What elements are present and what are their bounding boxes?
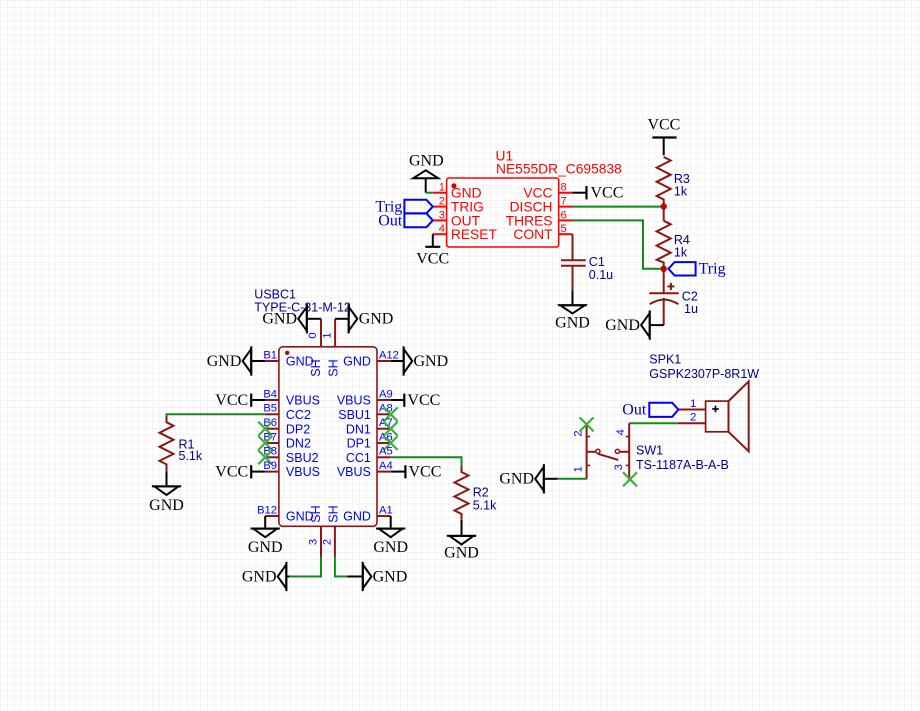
USBC1 pin B6 DP2 no-connect — [258, 417, 310, 436]
svg-text:GND: GND — [373, 539, 408, 556]
svg-text:5: 5 — [561, 223, 567, 235]
svg-text:B4: B4 — [263, 388, 277, 400]
SW1 pin 3 no-connect — [613, 464, 637, 486]
svg-text:3: 3 — [308, 539, 320, 545]
wire B5 CC2 to R1 — [167, 414, 266, 416]
svg-text:RESET: RESET — [451, 227, 498, 242]
switch SW1 body — [587, 423, 630, 479]
USBC1 pin A12 GND — [343, 349, 399, 368]
svg-text:DP1: DP1 — [347, 437, 371, 451]
resistor R3 — [657, 157, 690, 206]
svg-text:THRES: THRES — [506, 213, 553, 228]
ground symbol at A1 — [373, 516, 408, 556]
ground symbol at SW1 — [499, 464, 557, 493]
U1 pin 6 THRES — [506, 209, 573, 228]
svg-text:2: 2 — [321, 539, 333, 545]
U1 pin 3 OUT — [433, 209, 481, 228]
svg-text:SH: SH — [326, 505, 340, 522]
IC U1 NE555DR timer body — [447, 178, 559, 247]
svg-text:NE555DR_C695838: NE555DR_C695838 — [496, 162, 622, 177]
U1 pin 4 RESET — [433, 223, 498, 242]
ground symbol at B1 — [207, 346, 265, 375]
svg-text:B12: B12 — [257, 504, 277, 516]
SW1 pin 1 label — [572, 466, 584, 472]
svg-text:A9: A9 — [379, 388, 393, 400]
SPK1 pin 1 — [678, 398, 705, 410]
USBC1 pin A6 DP1 no-connect — [347, 431, 398, 450]
shield pin labels SH SH top — [309, 359, 341, 376]
svg-text:GND: GND — [343, 355, 371, 369]
svg-text:1: 1 — [572, 466, 584, 472]
net flag Trig at R4-C2 node — [668, 261, 725, 278]
svg-text:GND: GND — [248, 539, 283, 556]
svg-text:TRIG: TRIG — [451, 200, 484, 215]
SW1 pin 4 label — [615, 429, 627, 435]
wire SPK1 pin 2 to SW1 pin 4 — [629, 422, 678, 424]
USBC1 pin 3 shield bottom — [308, 526, 322, 556]
svg-text:1: 1 — [690, 398, 696, 410]
svg-text:SPK1: SPK1 — [649, 352, 681, 366]
net flag Out at U1 pin 3 — [378, 212, 433, 229]
svg-text:5.1k: 5.1k — [179, 449, 203, 463]
shield pin labels SH SH bottom — [309, 505, 341, 522]
svg-text:SH: SH — [309, 359, 323, 376]
U1 pin 8 VCC — [523, 182, 572, 201]
svg-text:3: 3 — [439, 209, 445, 221]
svg-text:B5: B5 — [263, 403, 277, 415]
net flag Trig at U1 pin 2 — [375, 199, 432, 216]
node R3-R4 junction — [661, 203, 667, 209]
svg-text:Out: Out — [622, 401, 647, 418]
VCC symbol at A4 — [391, 464, 442, 481]
svg-text:SW1: SW1 — [636, 444, 663, 458]
svg-text:A4: A4 — [379, 460, 393, 472]
svg-text:2: 2 — [439, 196, 445, 208]
svg-text:VCC: VCC — [409, 464, 442, 481]
svg-text:0: 0 — [307, 332, 319, 338]
svg-text:GND: GND — [409, 153, 444, 170]
resistor R2 — [455, 466, 498, 520]
svg-text:1u: 1u — [684, 302, 698, 316]
svg-text:0.1u: 0.1u — [589, 268, 613, 282]
capacitor C1 — [561, 255, 613, 290]
svg-text:CC2: CC2 — [286, 408, 311, 422]
svg-text:GND: GND — [343, 510, 371, 524]
wire SW1 pin 1 to ground — [557, 478, 586, 480]
U1 pin 2 TRIG — [433, 196, 484, 215]
wire U1 pin 7 to R3-R4 node — [573, 206, 664, 208]
ground symbol at pin 1 — [335, 304, 393, 333]
node R4-C2 junction — [661, 266, 667, 272]
resistor R1 — [160, 416, 203, 471]
svg-text:OUT: OUT — [451, 213, 481, 228]
svg-text:GSPK2307P-8R1W: GSPK2307P-8R1W — [649, 367, 759, 381]
VCC symbol at B4 — [215, 392, 265, 409]
ground symbol bottom-right — [347, 562, 407, 591]
svg-text:GND: GND — [499, 471, 534, 488]
svg-text:VCC: VCC — [647, 117, 680, 134]
svg-text:VBUS: VBUS — [286, 465, 320, 479]
svg-text:VBUS: VBUS — [337, 394, 371, 408]
USBC1 pin B4 VBUS — [263, 388, 320, 407]
USBC1 pin A9 VBUS — [337, 388, 393, 407]
svg-text:GND: GND — [207, 353, 242, 370]
U1 pin 7 DISCH — [510, 196, 573, 215]
USBC1 pin B7 DN2 no-connect — [258, 431, 311, 450]
ground symbol at B12 — [248, 516, 283, 556]
USBC1 pin A1 GND — [343, 504, 393, 523]
svg-text:3: 3 — [613, 464, 625, 470]
resistor R4 — [657, 207, 690, 269]
svg-text:GND: GND — [555, 315, 590, 332]
USBC1 pin B8 SBU2 no-connect — [258, 446, 318, 465]
wire pin 2 to ground — [335, 557, 347, 577]
svg-text:4: 4 — [439, 223, 445, 235]
wire pin1 to ground — [426, 192, 433, 194]
wire U1 pin 6 to R4-C2 node — [573, 220, 664, 268]
svg-text:8: 8 — [561, 182, 567, 194]
svg-text:GND: GND — [451, 186, 482, 201]
USBC1 pin 0 shield — [307, 319, 321, 347]
wire A5 CC1 to R2 — [391, 457, 462, 465]
svg-text:DN1: DN1 — [346, 422, 371, 436]
svg-text:SBU2: SBU2 — [286, 451, 319, 465]
ground symbol at A12 — [391, 346, 448, 375]
USBC1 pin B12 GND — [257, 504, 314, 523]
svg-text:CC1: CC1 — [346, 451, 371, 465]
SW1 designator label — [636, 444, 729, 472]
ground symbol below C1 — [555, 290, 590, 331]
VCC symbol at A9 — [391, 392, 441, 409]
svg-text:GND: GND — [414, 353, 449, 370]
svg-text:SH: SH — [309, 505, 323, 522]
svg-text:GND: GND — [444, 545, 479, 562]
VCC symbol above R3 — [647, 117, 680, 156]
svg-text:DP2: DP2 — [286, 422, 310, 436]
connector USBC1 body — [279, 347, 377, 527]
svg-text:1k: 1k — [674, 185, 688, 199]
svg-text:B1: B1 — [263, 349, 277, 361]
svg-text:VCC: VCC — [215, 464, 248, 481]
svg-text:SH: SH — [326, 359, 340, 376]
ground symbol at pin 0 — [262, 304, 321, 333]
svg-text:2: 2 — [572, 430, 584, 436]
SPK1 designator label — [649, 352, 759, 381]
svg-text:VBUS: VBUS — [286, 394, 320, 408]
VCC symbol below U1 pin 4 — [416, 234, 449, 267]
wire pin 3 to ground — [289, 557, 321, 577]
ground symbol above U1 pin 1 — [409, 153, 444, 193]
svg-text:Trig: Trig — [699, 261, 726, 278]
USBC1 pin B9 VBUS — [263, 460, 320, 479]
svg-text:VCC: VCC — [416, 250, 449, 267]
svg-text:GND: GND — [605, 317, 640, 334]
USBC1 pin A4 VBUS — [337, 460, 393, 479]
ground symbol bottom-left — [242, 562, 290, 591]
svg-text:VCC: VCC — [591, 185, 624, 202]
net flag Out at SPK1 pin 1 — [622, 401, 678, 418]
VCC symbol at U1 pin 8 — [573, 185, 624, 202]
svg-text:7: 7 — [561, 196, 567, 208]
svg-text:1k: 1k — [674, 246, 688, 260]
svg-text:GND: GND — [242, 568, 277, 585]
svg-text:TS-1187A-B-A-B: TS-1187A-B-A-B — [636, 458, 729, 472]
ground symbol below R1 — [149, 471, 184, 513]
svg-text:VBUS: VBUS — [337, 465, 371, 479]
svg-text:DN2: DN2 — [286, 437, 311, 451]
U1 pin 1 GND — [433, 182, 482, 201]
speaker SPK1 body — [706, 381, 749, 451]
svg-text:4: 4 — [615, 429, 627, 435]
U1 pin 5 CONT — [513, 223, 572, 242]
svg-text:GND: GND — [262, 311, 297, 328]
svg-text:VCC: VCC — [407, 392, 440, 409]
SW1 pin 2 no-connect — [572, 417, 593, 436]
svg-text:A12: A12 — [379, 349, 399, 361]
svg-text:VCC: VCC — [523, 186, 552, 201]
svg-text:A1: A1 — [379, 504, 393, 516]
svg-text:CONT: CONT — [513, 227, 553, 242]
USBC1 pin 2 shield bottom — [321, 526, 335, 556]
USBC1 pin 1 shield — [321, 319, 335, 347]
capacitor C2 — [649, 269, 698, 325]
svg-text:A5: A5 — [379, 446, 393, 458]
USBC1 pin A8 SBU1 no-connect — [338, 403, 397, 422]
svg-text:DISCH: DISCH — [510, 200, 553, 215]
USBC1 pin A7 DN1 no-connect — [346, 417, 398, 436]
USBC1 pin B5 CC2 — [263, 403, 311, 422]
svg-text:2: 2 — [690, 412, 696, 424]
ground symbol at C2 — [605, 311, 663, 340]
VCC symbol at B9 — [215, 464, 265, 481]
USBC1 pin B1 GND — [263, 349, 313, 368]
USBC1 designator label — [254, 288, 351, 315]
capacitor C1 wire from pin 5 — [572, 234, 574, 260]
U1 designator label — [496, 149, 623, 177]
svg-text:VCC: VCC — [215, 392, 248, 409]
svg-text:GND: GND — [149, 497, 184, 514]
svg-text:1: 1 — [321, 332, 333, 338]
USBC1 pin A5 CC1 — [346, 446, 393, 465]
svg-text:6: 6 — [561, 209, 567, 221]
svg-text:5.1k: 5.1k — [473, 499, 497, 513]
ground symbol below R2 — [444, 520, 479, 562]
capacitor C2 polarity mark — [667, 283, 674, 290]
SPK1 pin 2 — [678, 412, 706, 424]
svg-text:B9: B9 — [263, 460, 277, 472]
svg-text:Out: Out — [378, 212, 403, 229]
svg-text:GND: GND — [359, 311, 394, 328]
svg-text:SBU1: SBU1 — [338, 408, 371, 422]
svg-text:1: 1 — [439, 182, 445, 194]
svg-text:GND: GND — [373, 568, 408, 585]
